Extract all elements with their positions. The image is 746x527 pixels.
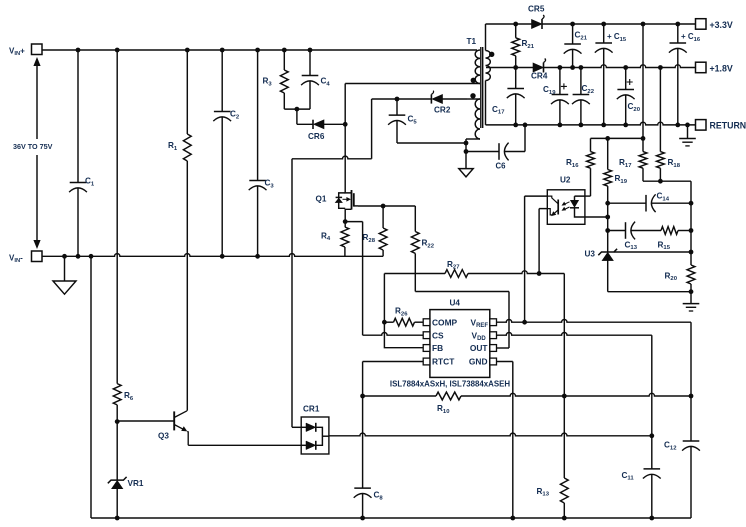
resistor R20	[665, 265, 695, 294]
ground U3 network	[683, 292, 700, 311]
capacitor C6	[466, 125, 525, 171]
input range arrow 36V TO 75V	[13, 57, 53, 249]
svg-text:U2: U2	[560, 176, 571, 185]
wire R22 to OUT pin	[415, 292, 509, 349]
ground aux	[459, 169, 473, 177]
capacitor C3	[249, 48, 275, 257]
wire VIN+ rail	[42, 49, 477, 51]
diode CR5	[528, 4, 545, 29]
resistor R3	[263, 48, 289, 110]
wire R27 right leg	[563, 274, 565, 397]
terminal RETURN	[696, 120, 746, 131]
wire U2 cathode to R19 node	[585, 216, 608, 218]
wire VREF line	[497, 320, 692, 397]
terminal VIN+	[9, 44, 42, 57]
wire +3.3V pre-diode	[486, 22, 532, 27]
transformer T1 aux winding	[466, 99, 480, 139]
wire primary bottom	[345, 83, 478, 85]
capacitor C1	[69, 48, 95, 257]
wire VDD rail	[329, 433, 652, 436]
resistor R10	[436, 392, 691, 415]
svg-text:VR1: VR1	[128, 479, 144, 488]
wire VREF-RTCT row	[360, 394, 693, 399]
svg-text:Q3: Q3	[158, 431, 169, 440]
node secondary phase dot	[489, 52, 494, 57]
resistor R1	[168, 48, 191, 161]
resistor R6	[113, 48, 134, 424]
wire +3.3V rail	[542, 22, 696, 27]
wire Q1 source	[343, 211, 348, 227]
svg-text:OUT: OUT	[470, 343, 489, 353]
capacitor C12	[664, 396, 700, 518]
capacitor C8	[354, 396, 384, 518]
wire current sense CS	[345, 222, 423, 336]
svg-text:CR6: CR6	[308, 132, 325, 141]
wire secondary top lead	[485, 24, 487, 51]
svg-text:CR2: CR2	[434, 105, 451, 114]
svg-text:COMP: COMP	[432, 317, 458, 327]
ground chassis at VIN-	[53, 256, 76, 294]
node primary phase dot	[471, 78, 476, 83]
wire node A	[591, 136, 644, 141]
transistor Q1	[316, 190, 359, 211]
resistor R19	[604, 138, 628, 252]
op-amp U4 pin labels	[432, 317, 488, 366]
svg-text:RETURN: RETURN	[710, 121, 746, 131]
resistor R13	[537, 396, 569, 518]
capacitor C2	[213, 48, 240, 257]
svg-text:ISL7884xASxH, ISL73884xASEH: ISL7884xASxH, ISL73884xASEH	[390, 380, 510, 389]
capacitor C13	[608, 222, 661, 252]
wire GND line	[497, 362, 513, 519]
diode CR1	[301, 405, 329, 454]
wire aux return node	[464, 139, 469, 169]
svg-text:T1: T1	[467, 37, 477, 46]
capacitor C21	[564, 24, 588, 68]
svg-text:+3.3V: +3.3V	[710, 20, 733, 30]
transformer T1 core	[481, 47, 483, 128]
transformer T1 primary winding	[475, 50, 480, 84]
resistor R27	[384, 260, 564, 322]
op-amp U4 part number	[390, 380, 510, 389]
diode CR6	[297, 120, 345, 141]
capacitor C20	[617, 68, 641, 125]
svg-text:U3: U3	[585, 250, 596, 259]
op-amp U2 optocoupler	[547, 176, 585, 225]
op-amp U4 box	[430, 299, 490, 378]
terminal +1.8V	[696, 62, 733, 73]
capacitor C4	[301, 48, 330, 110]
transistor Q3	[158, 411, 188, 446]
capacitor C5	[388, 97, 466, 143]
svg-text:C6: C6	[496, 162, 507, 171]
svg-text:CR4: CR4	[531, 72, 548, 81]
diode CR4	[531, 59, 548, 81]
resistor R4	[321, 227, 349, 256]
capacitor C11	[622, 433, 661, 518]
resistor R21	[512, 24, 535, 68]
wire Q3 base	[117, 420, 174, 422]
wire U2 collector to VREF	[525, 196, 548, 322]
wire divider node B	[643, 179, 691, 184]
resistor R15	[658, 227, 692, 252]
terminal +3.3V	[696, 19, 733, 30]
wire CR2 node to CR1	[292, 99, 372, 427]
capacitor C16	[669, 24, 701, 125]
wire +1.8V rail	[544, 65, 697, 70]
diode CR2	[372, 91, 467, 115]
wire left ground bus vertical	[90, 256, 92, 518]
zener U3	[585, 249, 694, 292]
wire U3 anode return	[608, 291, 691, 293]
wire Q3 emitter to CR1	[188, 444, 301, 446]
wire VDD line	[497, 333, 652, 436]
resistor R26	[382, 307, 423, 327]
wire U2 emitter to R27 node	[537, 209, 548, 276]
resistor R16	[566, 138, 594, 196]
node Q1 drain column	[343, 84, 348, 191]
svg-text:GND: GND	[469, 357, 488, 367]
terminal VIN-	[9, 251, 42, 264]
capacitor C19	[543, 68, 569, 125]
op-amp U4 pins	[423, 319, 496, 365]
wire right feedback column	[689, 181, 694, 265]
svg-text:+1.8V: +1.8V	[710, 63, 733, 73]
wire RTCT line	[363, 362, 424, 397]
zener VR1	[108, 422, 144, 518]
svg-text:CR1: CR1	[303, 405, 320, 414]
node aux phase dot	[470, 93, 475, 98]
ground secondary return	[679, 125, 696, 146]
wire RETURN rail	[486, 122, 697, 127]
svg-text:Q1: Q1	[316, 194, 327, 203]
wire VIN- rail	[42, 254, 383, 259]
svg-text:U4: U4	[450, 299, 461, 308]
transformer T1 secondary winding	[486, 51, 491, 125]
wire +1.8V tap	[486, 65, 533, 70]
wire Q1 gate line	[358, 204, 415, 209]
wire bottom ground rail	[91, 516, 691, 521]
resistor R18	[657, 68, 681, 182]
wire R1 to Q3 collector	[186, 161, 188, 411]
capacitor C14	[608, 192, 691, 212]
capacitor C22	[572, 68, 595, 125]
wire R3-C4 junction	[284, 107, 310, 125]
svg-text:36V TO 75V: 36V TO 75V	[13, 142, 53, 151]
svg-text:RTCT: RTCT	[432, 357, 455, 367]
resistor R17	[619, 24, 647, 181]
svg-text:CR5: CR5	[528, 4, 545, 13]
capacitor C15	[595, 24, 627, 125]
svg-text:CS: CS	[432, 330, 444, 340]
resistor R22	[411, 206, 434, 292]
wire FB to COMP node	[384, 322, 423, 348]
transformer T1 label	[467, 37, 477, 46]
capacitor C17	[492, 68, 525, 125]
svg-text:FB: FB	[432, 343, 443, 353]
resistor R28	[363, 206, 388, 256]
